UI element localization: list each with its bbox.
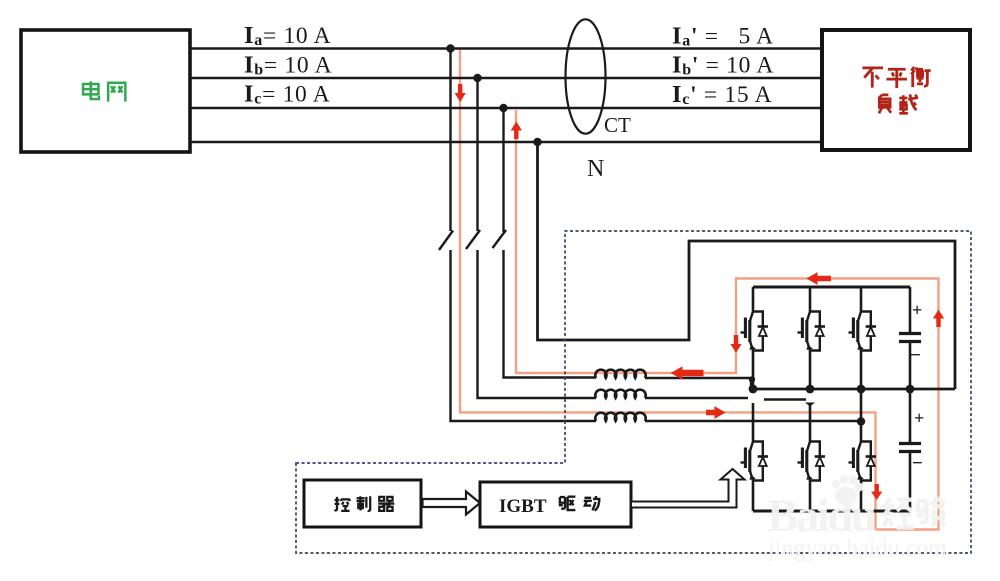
hollow arrow controller to drive [423, 492, 481, 515]
tap node neutral [533, 138, 541, 146]
red arrow right on inductor Lc run [706, 406, 726, 419]
IGBT Q4 [741, 442, 769, 481]
svg-text:+: + [912, 300, 922, 320]
wire Lb stub to leg2 [764, 398, 806, 400]
junction blob Lb to leg2 [805, 403, 815, 407]
svg-text:jingyan.baidu.com: jingyan.baidu.com [767, 533, 947, 562]
inverter midpoint bus [753, 388, 955, 391]
leg 2 wires [809, 287, 812, 511]
inverter top rail [753, 286, 910, 289]
dashed APF enclosure [296, 231, 971, 553]
IGBT Q3 [849, 312, 877, 351]
red arrow down into bridge left [730, 335, 741, 353]
text 不平衡 (red, hand-drawn strokes) [862, 67, 930, 88]
phase a drop wire with breaker [449, 49, 451, 232]
text 驱动 (black, hand-drawn strokes) [559, 496, 600, 511]
IGBT Q2 [798, 312, 826, 351]
IGBT Q5 [798, 442, 826, 481]
svg-text:Ib= 10 A: Ib= 10 A [244, 52, 332, 79]
red arrow left on top orange run [807, 272, 832, 285]
watermark 经验 strokes [884, 498, 945, 528]
leg 1 wires [752, 287, 755, 511]
svg-text:Ic' = 15 A: Ic' = 15 A [672, 81, 772, 108]
inductor Lb [595, 390, 645, 398]
bus junction dot leg2 [806, 385, 815, 394]
red arrow left on inductor La run [671, 366, 704, 379]
leg 3 wires [860, 287, 863, 511]
wire inductor Lb toward leg2 [645, 397, 748, 399]
breaker phase b [466, 230, 480, 249]
svg-text:+: + [914, 408, 924, 428]
svg-text:IGBT: IGBT [499, 496, 547, 517]
phase c drop wire with breaker [502, 108, 504, 232]
inductor Lc [595, 413, 645, 421]
text 控制器 (black, hand-drawn strokes) [335, 496, 395, 511]
tap node phase c [499, 104, 507, 112]
dc capacitor C1 [909, 287, 912, 389]
red arrow down phase a tap [455, 84, 466, 102]
wire inductor Lc to leg3 [645, 420, 861, 422]
red arrow up right orange run [933, 310, 944, 328]
svg-text:N: N [587, 156, 604, 182]
breaker phase c [493, 230, 507, 248]
text 负载 (red, hand-drawn strokes) [878, 94, 918, 113]
unbalanced load box 不平衡负载 [822, 30, 970, 150]
watermark Baidu Jingyan [767, 475, 947, 562]
bus junction dot leg1 [749, 385, 758, 394]
inverter bottom rail [753, 510, 910, 513]
svg-text:Ia= 10 A: Ia= 10 A [244, 22, 331, 49]
svg-text:Ib' = 10 A: Ib' = 10 A [672, 52, 774, 79]
controller box 控制器 [304, 480, 421, 527]
grid source box 电网 [21, 30, 190, 152]
bus junction dot leg3 [857, 385, 866, 394]
svg-text:−: − [912, 453, 923, 474]
svg-text:Ic= 10 A: Ic= 10 A [244, 81, 330, 108]
bus junction dot capacitor branch [906, 385, 915, 394]
tap node phase b [473, 74, 481, 82]
dc capacitor C2 [909, 389, 912, 511]
IGBT Q6 [849, 442, 877, 481]
junction dot La to leg1 [749, 376, 755, 382]
wire inductor La to leg1 [645, 378, 751, 389]
neutral return wire to dc midpoint [538, 142, 956, 389]
breaker phase a [439, 231, 453, 251]
red arrow down bottom right orange [871, 484, 882, 500]
red arrow up phase c tap [511, 122, 522, 140]
IGBT Q1 [741, 312, 769, 351]
phase line b [190, 77, 822, 79]
phase line c [190, 107, 822, 109]
svg-text:−: − [910, 345, 921, 366]
tap node phase a [446, 44, 454, 52]
neutral line N [190, 141, 822, 143]
svg-text:CT: CT [604, 113, 631, 137]
phase b drop wire with breaker [476, 78, 478, 231]
phase line a [190, 47, 822, 49]
CT ellipse [566, 19, 606, 133]
hollow bent arrow drive to inverter [631, 469, 745, 508]
orange compensation-current wire (single path phase a -> inverter -> phase c) [460, 50, 939, 530]
junction dot Lc to leg3 [857, 417, 865, 425]
IGBT drive box IGBT驱动 [480, 482, 631, 527]
text 电网 (green, hand-drawn strokes) [83, 81, 125, 101]
svg-text:Ia' = 5 A: Ia' = 5 A [672, 23, 774, 50]
inductor La [595, 370, 645, 378]
